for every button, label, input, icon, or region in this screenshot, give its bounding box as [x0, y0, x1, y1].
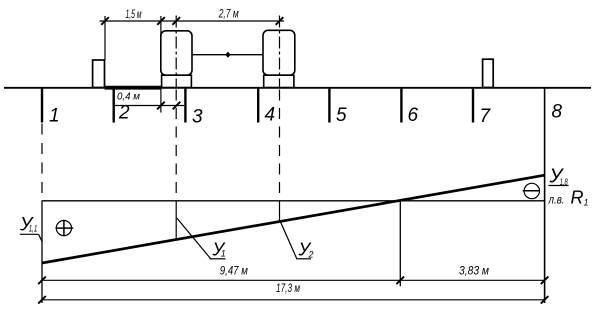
- svg-text:3: 3: [192, 107, 203, 128]
- svg-text:1,5 м: 1,5 м: [126, 9, 142, 21]
- svg-text:л.в.: л.в.: [548, 193, 565, 207]
- svg-text:1: 1: [49, 106, 60, 127]
- svg-text:1: 1: [584, 198, 589, 208]
- svg-text:5: 5: [336, 105, 347, 126]
- svg-text:8: 8: [552, 102, 563, 123]
- svg-text:7: 7: [480, 106, 492, 127]
- svg-text:17,3 м: 17,3 м: [276, 281, 300, 295]
- svg-text:6: 6: [408, 105, 419, 126]
- svg-text:0,4 м: 0,4 м: [117, 91, 140, 103]
- svg-text:4: 4: [265, 105, 276, 126]
- svg-text:3,83 м: 3,83 м: [459, 264, 489, 278]
- svg-text:2: 2: [118, 103, 130, 124]
- svg-text:1,1: 1,1: [29, 224, 38, 234]
- svg-text:R: R: [571, 188, 584, 208]
- svg-text:1,8: 1,8: [560, 177, 568, 187]
- svg-text:2,7 м: 2,7 м: [218, 9, 239, 21]
- svg-text:9,47 м: 9,47 м: [220, 264, 248, 278]
- svg-text:1: 1: [221, 249, 226, 259]
- svg-text:2: 2: [308, 250, 314, 260]
